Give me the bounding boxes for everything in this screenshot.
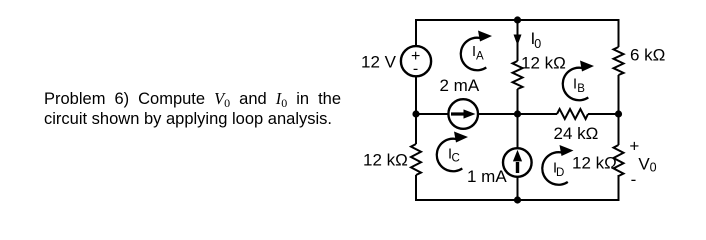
svg-text:2 mA: 2 mA xyxy=(440,76,480,95)
svg-text:-: - xyxy=(413,60,418,77)
svg-text:12 kΩ: 12 kΩ xyxy=(572,154,617,173)
svg-text:24 kΩ: 24 kΩ xyxy=(554,124,599,143)
svg-text:12 V: 12 V xyxy=(361,53,397,72)
svg-text:1 mA: 1 mA xyxy=(467,167,507,186)
svg-text:0: 0 xyxy=(534,37,541,51)
svg-text:12 kΩ: 12 kΩ xyxy=(363,151,408,170)
svg-text:B: B xyxy=(577,83,585,95)
svg-text:6 kΩ: 6 kΩ xyxy=(630,46,665,65)
svg-text:A: A xyxy=(476,51,484,63)
svg-text:0: 0 xyxy=(650,161,657,175)
svg-text:V: V xyxy=(638,155,650,174)
svg-text:C: C xyxy=(452,153,460,165)
svg-text:12 kΩ: 12 kΩ xyxy=(521,54,566,73)
svg-text:-: - xyxy=(631,170,637,189)
svg-text:+: + xyxy=(629,137,639,156)
svg-text:D: D xyxy=(556,167,564,179)
